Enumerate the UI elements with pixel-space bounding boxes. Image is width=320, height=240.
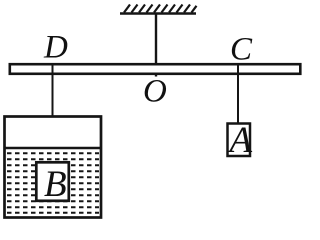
svg-text:C: C — [230, 32, 253, 68]
water dashes — [7, 153, 99, 213]
water surface — [4, 147, 101, 150]
svg-text:D: D — [43, 30, 68, 66]
lever bar — [10, 64, 301, 74]
string at D — [52, 64, 54, 163]
block A — [228, 124, 251, 157]
ceiling — [120, 12, 196, 15]
support rod at O — [155, 14, 157, 77]
svg-text:A: A — [227, 120, 253, 161]
string at C — [237, 64, 239, 124]
container — [5, 117, 102, 218]
block B — [36, 162, 69, 201]
ceiling hatch — [124, 5, 197, 13]
svg-text:B: B — [44, 164, 67, 205]
svg-text:O: O — [143, 74, 167, 110]
